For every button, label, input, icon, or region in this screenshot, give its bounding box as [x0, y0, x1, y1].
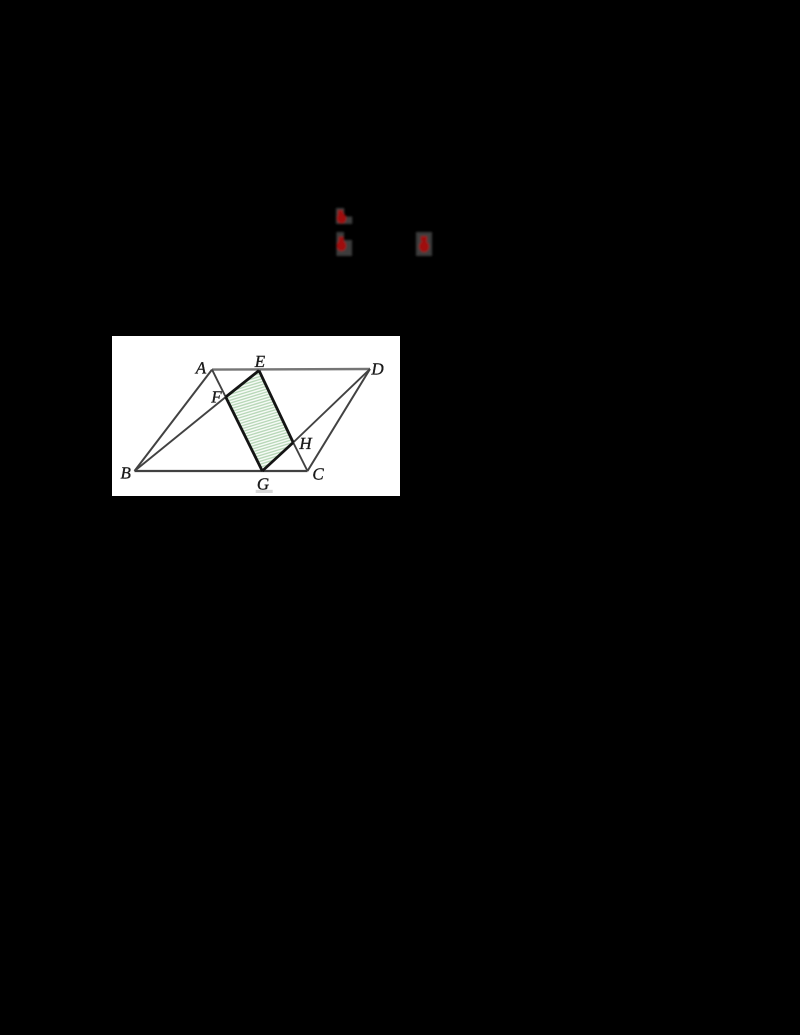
line GD (thin part H to D): [293, 369, 370, 443]
red mark 1 glyph: [338, 210, 343, 214]
figure white background: [112, 336, 400, 496]
side AD: [212, 368, 370, 371]
quad edge GH: [262, 443, 293, 472]
svg-text:H: H: [298, 434, 313, 453]
svg-text:C: C: [312, 464, 324, 483]
svg-text:D: D: [370, 359, 384, 378]
line EC (thin part H to C): [293, 443, 307, 472]
red mark 2 highlight box: [336, 232, 352, 256]
side DC: [308, 369, 371, 471]
svg-text:E: E: [254, 352, 266, 371]
svg-text:A: A: [195, 358, 207, 377]
svg-text:B: B: [120, 463, 131, 482]
red mark 2 glyph: [339, 237, 344, 242]
side AB: [135, 370, 213, 471]
red mark 3 highlight box: [416, 232, 432, 256]
quad edge FG: [226, 397, 263, 471]
red mark 3 glyph: [421, 236, 427, 241]
quad edge HE: [259, 371, 293, 443]
line AG (thin part A to F): [212, 370, 226, 397]
shaded quadrilateral EFGH: [166, 314, 352, 526]
red mark 1 highlight box: [336, 208, 352, 224]
quad edge EF: [226, 371, 259, 398]
faint artifact below G: [256, 490, 273, 493]
line BE (thin part B to F): [135, 397, 226, 471]
svg-text:F: F: [210, 387, 222, 406]
side BC: [135, 470, 308, 472]
